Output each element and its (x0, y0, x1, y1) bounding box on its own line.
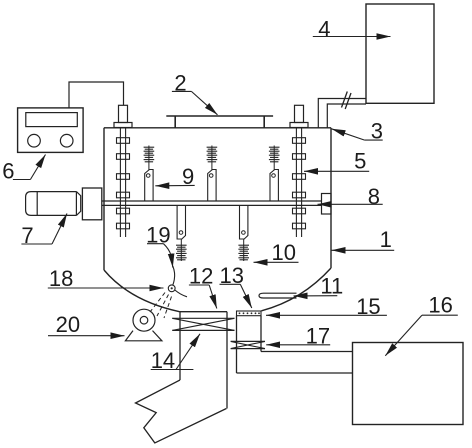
label 2 (172, 71, 218, 115)
label 5 (304, 149, 369, 174)
svg-text:11: 11 (320, 274, 343, 299)
broken boot outline (136, 380, 227, 443)
storage box 4 (366, 4, 434, 103)
label 10 (254, 240, 299, 265)
label 9 (155, 164, 194, 189)
right agitator shaft 5 with collars (290, 105, 308, 237)
wire from controller to left shaft top (69, 82, 124, 108)
label 13 (220, 263, 252, 308)
feed pipe from tank 4 to vessel top (318, 99, 366, 128)
svg-text:16: 16 (428, 293, 452, 318)
nozzle pipe (item 19 target) (173, 266, 175, 285)
nozzle outlet hook (175, 290, 187, 297)
label 17 (266, 323, 330, 348)
left chute walls (180, 312, 227, 409)
controller box U6 (18, 108, 84, 152)
horizontal agitator bar 8 (102, 201, 322, 205)
hopper outlet lip 12 (180, 311, 228, 313)
duct to box 16 (237, 352, 353, 374)
svg-text:6: 6 (2, 159, 14, 184)
label 12 (189, 263, 217, 308)
collection box 16 (353, 343, 464, 425)
svg-text:4: 4 (318, 16, 330, 41)
motor M7 (26, 192, 81, 216)
spray nozzle 18 (168, 285, 175, 292)
svg-text:5: 5 (354, 149, 366, 174)
label 11 (294, 274, 344, 299)
svg-text:10: 10 (272, 240, 296, 265)
left agitator shaft with collars (114, 105, 132, 237)
rotary valve 14 (172, 318, 234, 330)
comb tine 9c (269, 146, 280, 202)
right channel walls (237, 316, 262, 373)
label 14 (151, 334, 200, 373)
svg-text:1: 1 (380, 227, 392, 252)
top cover plate 2 (166, 116, 273, 128)
hanging comb 10b (238, 205, 249, 261)
label 7 (21, 214, 67, 249)
svg-text:18: 18 (49, 266, 73, 291)
hanging comb 10a (176, 205, 187, 261)
label 16 (385, 293, 458, 356)
tank 1 outline: top, side walls, hopper curves (104, 128, 331, 312)
label 15 (266, 294, 387, 319)
label 20 (48, 312, 125, 337)
motor gearbox (82, 188, 101, 220)
svg-text:20: 20 (56, 312, 80, 337)
label 18 (48, 266, 164, 291)
label 4 (313, 16, 391, 41)
comb tine 9b (207, 146, 218, 202)
sensor tube 11 (259, 293, 297, 298)
small valve 17 (231, 341, 265, 348)
comb tine 9a (144, 146, 155, 202)
pipe valve slashes (342, 92, 352, 110)
pump 20 (125, 309, 161, 341)
bearing block on right wall (322, 194, 332, 215)
perforated strip 13/15 (237, 311, 262, 316)
label 3 (332, 119, 383, 144)
spray dashed lines (150, 293, 172, 319)
label 1 (332, 227, 395, 252)
label 19 (146, 223, 173, 268)
label 8 (318, 184, 383, 209)
label 6 (2, 155, 45, 184)
svg-text:8: 8 (368, 184, 380, 209)
